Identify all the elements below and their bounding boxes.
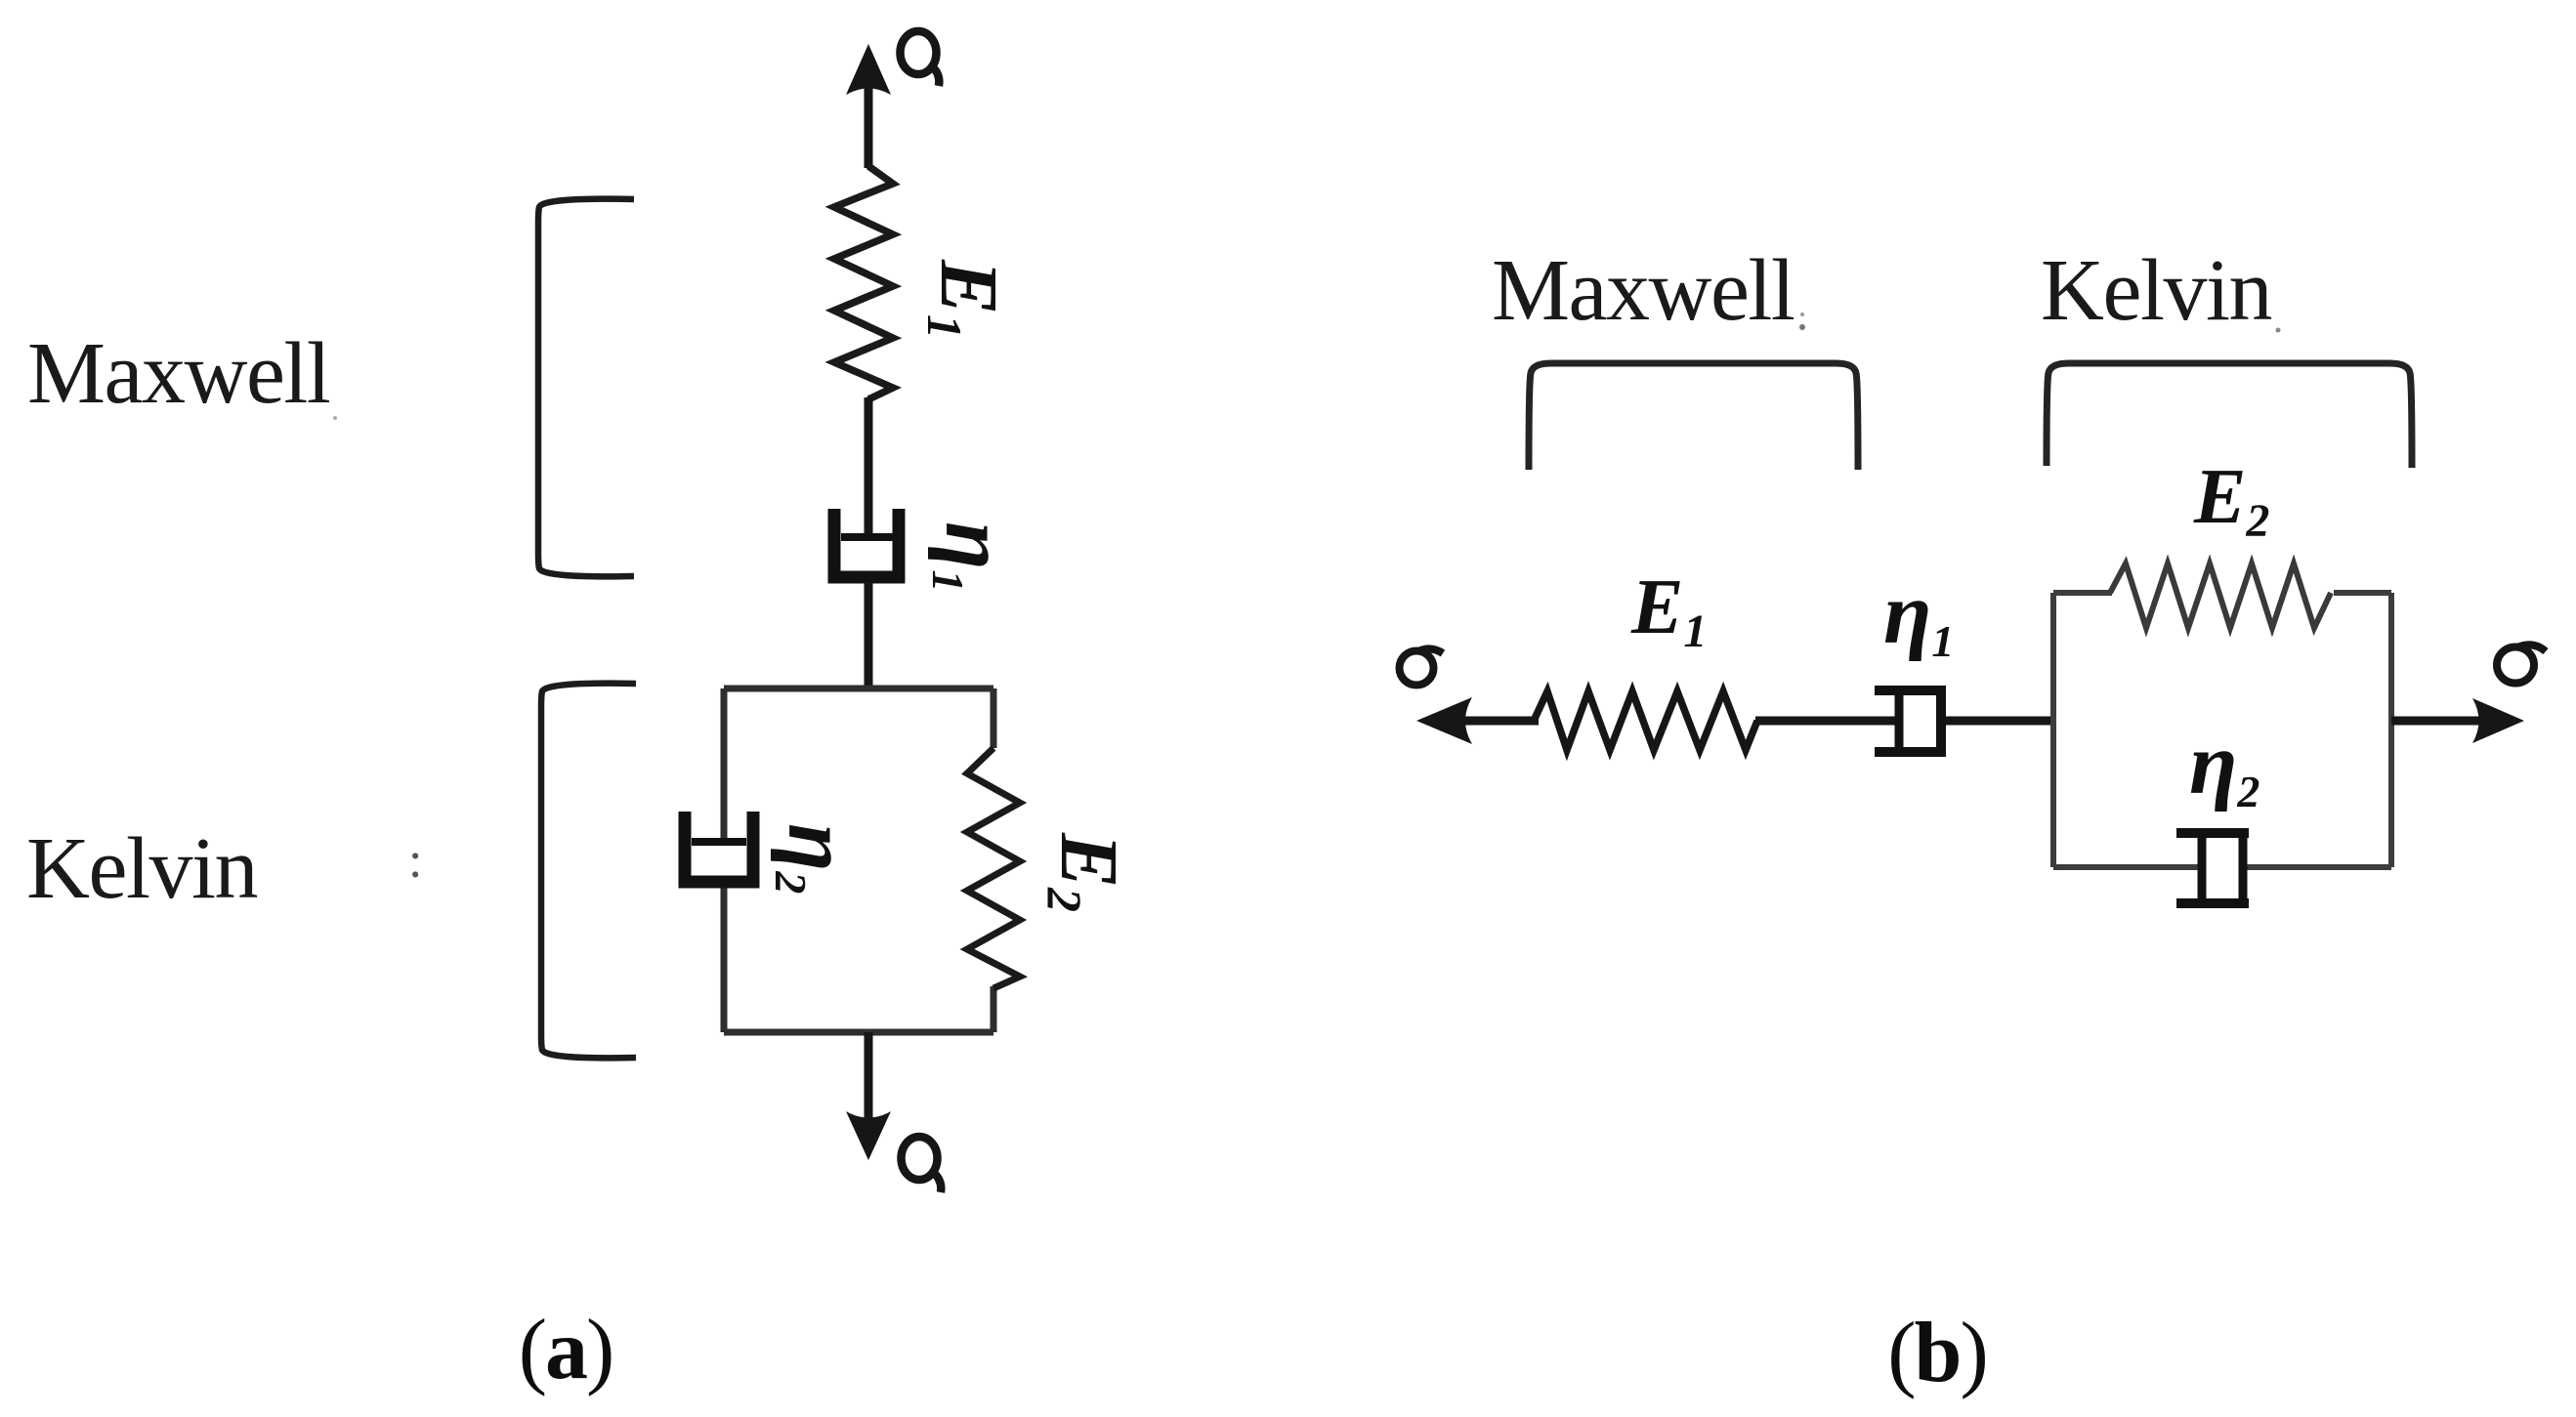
svg-text:Maxwell: Maxwell: [27, 325, 330, 422]
svg-text:Kelvin: Kelvin: [26, 820, 257, 917]
svg-text:(a): (a): [519, 1303, 613, 1397]
svg-text:Kelvin: Kelvin: [2041, 242, 2271, 339]
svg-text::: :: [408, 833, 422, 889]
svg-text:Maxwell: Maxwell: [1492, 242, 1795, 339]
svg-text:(b): (b): [1887, 1306, 1987, 1400]
